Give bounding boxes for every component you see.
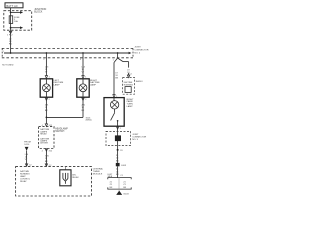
- svg-text:NO. 3: NO. 3: [132, 139, 138, 141]
- ground eyelet square: [116, 163, 127, 167]
- svg-text:NOT USED: NOT USED: [2, 64, 14, 66]
- label central timer module: [93, 168, 104, 176]
- svg-text:C2: C2: [129, 74, 131, 76]
- node: bus tap right lamp: [82, 52, 84, 54]
- svg-text:BATT A0: BATT A0: [6, 4, 18, 8]
- solid state circuitry box (trident): [60, 167, 71, 186]
- wire joining both lamp returns: [46, 116, 83, 118]
- connector cavity labels: [110, 181, 127, 189]
- svg-text:(8W50): (8W50): [86, 119, 92, 121]
- svg-text:2: 2: [49, 99, 50, 101]
- svg-text:CONNECTOR: CONNECTOR: [134, 49, 148, 51]
- svg-text:10A: 10A: [14, 20, 18, 23]
- wire feed to module: [25, 151, 32, 167]
- label headlamp switch: [55, 127, 68, 133]
- headlamp switch internal position text 1: [40, 128, 50, 135]
- svg-text:RELAY: RELAY: [72, 176, 79, 179]
- inline ground connector labels: [108, 174, 123, 178]
- wire right branch drop: [117, 53, 119, 58]
- central timer module dashed box: [16, 167, 92, 196]
- svg-text:2: 2: [85, 99, 86, 101]
- node: bus tap left lamp: [46, 52, 48, 54]
- right daytime running lamp: [77, 79, 89, 97]
- wire park lamp to ground: [117, 126, 119, 150]
- right park/turn lamp with switch: [104, 98, 124, 127]
- dashed box relay (right): [123, 74, 143, 95]
- svg-text:S1: S1: [120, 150, 122, 152]
- wire right lamp feed: [80, 53, 86, 79]
- node: bus tap at W1: [10, 52, 12, 54]
- junction block dashed box: [4, 11, 32, 31]
- wire headlamp switch to module: [45, 149, 51, 168]
- svg-text:G103: G103: [121, 165, 127, 167]
- node splice S116: [46, 117, 48, 119]
- svg-text:DRIVER: DRIVER: [40, 143, 48, 145]
- headlamp switch dashed box: [39, 127, 54, 149]
- svg-text:1: 1: [113, 59, 114, 61]
- label left daytime lamp: [54, 80, 64, 86]
- ground G103: [116, 191, 129, 196]
- connector bracket bottom: [108, 187, 131, 189]
- svg-text:X12: X12: [49, 150, 52, 152]
- node: bus tap right branch: [117, 52, 119, 54]
- connector C1 exit of junction block: [7, 31, 13, 36]
- wire right lamp return: [82, 97, 87, 117]
- svg-text:RADIO: RADIO: [136, 80, 143, 83]
- wire to ground: [118, 178, 120, 191]
- svg-text:1 F12: 1 F12: [7, 34, 13, 36]
- feed from other circuit (from arrow): [24, 142, 31, 151]
- left daytime running lamp: [40, 79, 52, 97]
- svg-text:RD: RD: [9, 44, 13, 46]
- label right daytime lamp: [90, 80, 100, 86]
- svg-text:LAMP: LAMP: [127, 105, 133, 108]
- connector bracket top: [108, 178, 131, 180]
- label solid state: [72, 174, 79, 179]
- battery feed box BATT A0: [5, 3, 23, 8]
- svg-text:SWITCH: SWITCH: [55, 131, 64, 133]
- svg-text:RUNNING: RUNNING: [124, 84, 134, 86]
- wire arrow branch top (to other circuits): [11, 11, 24, 14]
- connector out of headlamp switch: [42, 149, 52, 153]
- bus solid feed wire: [4, 52, 131, 55]
- node: junction dot above fuse: [10, 12, 12, 14]
- wire to fuse box branch: [118, 58, 131, 78]
- svg-text:BLOCK: BLOCK: [34, 10, 43, 13]
- node splice below joint connector: [117, 149, 119, 151]
- svg-text:3: 3: [80, 59, 81, 61]
- node: junction dot below fuse: [10, 27, 12, 29]
- wire to ground connector: [116, 166, 119, 177]
- svg-text:G103: G103: [123, 194, 129, 196]
- svg-text:S110: S110: [24, 144, 30, 146]
- svg-text:2: 2: [43, 59, 44, 61]
- wire left lamp feed: [43, 53, 49, 79]
- wire to park/turn lamp: [113, 58, 119, 98]
- svg-text:C1: C1: [120, 175, 122, 177]
- connector into headlamp switch: [42, 124, 52, 127]
- wire ground segment: [116, 150, 119, 163]
- wire arrow branch bottom (to other circuits): [11, 26, 24, 29]
- svg-text:MODULE: MODULE: [93, 174, 103, 176]
- svg-text:NO. 4: NO. 4: [134, 52, 140, 54]
- wire left lamp return: [45, 97, 50, 124]
- joint connector no 3 dashed box: [106, 131, 131, 145]
- wire W1 battery to bus: [10, 8, 12, 53]
- svg-text:RELAY: RELAY: [40, 132, 47, 135]
- label right park lamp: [127, 99, 134, 108]
- svg-text:RELAY: RELAY: [20, 180, 27, 183]
- label joint connector no 4: [134, 46, 148, 54]
- svg-text:LAMP: LAMP: [90, 83, 96, 86]
- wire label L3 18 RD: [9, 39, 13, 46]
- headlamp switch internal position text 2: [40, 138, 50, 145]
- svg-text:JOINT: JOINT: [134, 46, 141, 48]
- label joint connector no 3: [132, 134, 146, 141]
- bus dashed band (harness): [2, 48, 133, 57]
- module internal text: [20, 170, 31, 183]
- label junction block: [34, 8, 46, 14]
- fuse F5: [9, 16, 20, 24]
- svg-text:1: 1: [3, 51, 4, 53]
- svg-text:2: 2: [120, 128, 121, 130]
- connector out of park lamp: [116, 127, 120, 130]
- svg-text:LAMP: LAMP: [54, 83, 60, 86]
